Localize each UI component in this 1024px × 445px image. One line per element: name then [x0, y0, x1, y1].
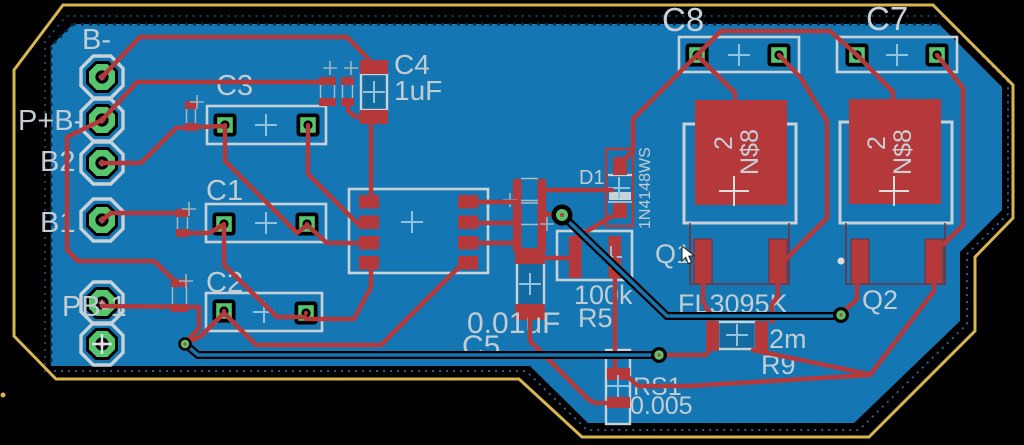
transistor Q2 leg pads — [851, 239, 943, 284]
via near Q2 — [833, 307, 849, 323]
svg-text:C2: C2 — [206, 267, 243, 299]
svg-text:Q2: Q2 — [862, 285, 898, 315]
capacitor C4 body outline — [361, 74, 387, 110]
via near RS1 — [651, 347, 667, 363]
keepout dotted line (outer, on black) — [45, 16, 943, 372]
R9 center cross — [726, 324, 748, 346]
C8 center cross — [728, 44, 750, 66]
svg-text:N$8: N$8 — [889, 129, 917, 175]
svg-text:1N4148WS: 1N4148WS — [637, 147, 654, 229]
wire C3 pad2 to U1 pad2 — [308, 126, 361, 227]
transistor Q1 leg pads — [694, 239, 787, 284]
svg-text:0.005: 0.005 — [630, 392, 693, 420]
wire U1 right pad3 to R8 — [470, 241, 517, 246]
pad PB-1 lower (octagonal through-hole) — [81, 323, 123, 365]
wire D1 cathode to R5 pad1 — [577, 214, 616, 237]
D1 center cross — [608, 177, 630, 199]
resistor R5 outline box — [557, 231, 632, 280]
resistor R9 pads — [706, 321, 768, 351]
wire RS1 top pad to Q2 leg2 — [625, 282, 934, 386]
diode D1 outline box (red) — [606, 149, 633, 226]
wire C8 pad1 to Q1 tab — [697, 55, 735, 102]
wire U1 right pad2 to R7 — [470, 221, 517, 226]
wire R5 pad2 to RS1 top pad — [613, 258, 618, 372]
Q2 tab net label 2 N$8 — [863, 129, 917, 175]
capacitor C3 outline box — [207, 106, 326, 144]
wire R9 pad2 to sense line — [753, 350, 868, 374]
wire D1 anode to C8 pad1 — [620, 55, 697, 164]
svg-text:C8: C8 — [662, 1, 704, 38]
wire C2 pad2 to U1 left pad4 — [306, 267, 371, 319]
resistor RS1 outline box — [606, 350, 630, 424]
Q2 tab cross — [879, 176, 909, 206]
wire P+B down left side to R4 top pad — [67, 120, 177, 283]
transistor Q2 package outline box — [840, 122, 952, 284]
C1 center cross — [255, 212, 277, 234]
capacitor C7 pads — [846, 44, 949, 67]
capacitor C5 body outline — [517, 262, 544, 306]
pad B1 (octagonal through-hole) — [81, 199, 123, 241]
wire B- to C4 top pad — [102, 37, 374, 77]
svg-text:B-: B- — [82, 24, 111, 56]
capacitor C1 outline box — [206, 204, 326, 242]
capacitor C4 pads — [360, 60, 388, 124]
op-amp U1 pads (SO-8) — [359, 195, 478, 270]
capacitor C7 outline box — [837, 37, 957, 72]
resistor R5 pads — [569, 236, 621, 278]
resistor R2 (tiny, left of C3) — [185, 95, 204, 131]
origin dot marker bottom-left — [1, 393, 6, 398]
svg-text:C1: C1 — [206, 175, 243, 207]
wire C7 pad1 to Q2 tab — [857, 55, 893, 101]
wire C8 pad2 to Q1 leg2 — [779, 55, 827, 261]
op-amp U1 outline box (SO-8) — [349, 189, 488, 273]
pad B2 (octagonal through-hole) — [81, 142, 123, 184]
wire C1 pad2 to U1 pad3 — [307, 225, 366, 243]
wire C5 bottom pad to RS1 bottom pad — [530, 314, 612, 403]
wire bottom-layer via to via (left long run) — [185, 344, 659, 355]
wire R3 bottom pad to C1 pad1 — [182, 225, 223, 233]
mouse cursor — [682, 246, 694, 264]
transistor Q2 tab pad — [849, 99, 941, 204]
wire B1 to R3 top pad — [102, 213, 182, 220]
svg-text:D1: D1 — [579, 167, 605, 189]
wire C8 pad1 to C7 pad1 — [697, 31, 857, 55]
capacitor C3 pads — [214, 114, 320, 137]
svg-text:B2: B2 — [40, 146, 75, 178]
capacitor C5 pads — [515, 248, 545, 320]
Q1 tab net label 2 N$8 — [710, 129, 764, 175]
svg-text:2: 2 — [710, 136, 738, 150]
wire Q1 leg2 to R9 pad2 — [772, 282, 778, 322]
via N$12 (near D1) — [552, 205, 573, 226]
C7 center cross — [886, 44, 908, 66]
svg-text:N$8: N$8 — [736, 129, 764, 175]
wire B2 to R2 bottom pad to C3 pad1 — [102, 126, 225, 163]
capacitor C2 outline box — [206, 293, 322, 331]
svg-text:B1: B1 — [40, 207, 75, 239]
Q1 tab cross — [719, 176, 749, 206]
C3 center cross — [255, 114, 277, 136]
RS1 center cross — [607, 375, 629, 397]
capacitor C2 pads — [213, 300, 318, 325]
wire C9 bottom pad to C4 bottom pad — [348, 102, 372, 117]
transistor Q1 package outline box — [684, 124, 796, 284]
transistor Q1 tab pad — [695, 100, 787, 205]
svg-text:2: 2 — [863, 136, 891, 150]
wire bottom-layer via N$12 to via near Q2 — [562, 215, 841, 316]
capacitor C8 outline box — [679, 37, 799, 72]
wire C3 pad1 to C1 pad2 — [225, 126, 306, 233]
U1 center cross — [401, 211, 423, 233]
resistor R7 / R8 pair (stack above C5) — [503, 179, 554, 253]
capacitor C9 (tiny, left of C4) — [341, 61, 358, 106]
svg-text:C7: C7 — [866, 0, 908, 37]
via near PB-1 — [178, 337, 192, 351]
wire via to Q2 leg1 — [841, 282, 857, 314]
pad P+B (octagonal through-hole) — [81, 99, 123, 141]
resistor RS1 pads — [607, 368, 630, 408]
resistor R9 outline box — [718, 322, 756, 349]
svg-text:1uF: 1uF — [394, 75, 442, 106]
wire C2 pad1 to U1 right pad4 — [225, 265, 461, 345]
wire C4 bottom pad to U1 pad1 — [369, 122, 374, 202]
svg-text:R5: R5 — [578, 303, 613, 333]
pad B- (octagonal through-hole) — [81, 56, 123, 98]
wire PB-1 to R4 bottom pad junction — [102, 306, 199, 341]
R5 center cross — [600, 246, 622, 268]
C5 center cross — [519, 273, 541, 295]
wire C5 top to R5 pad1 — [545, 256, 573, 261]
capacitor C6 (tiny, left of C4) — [319, 61, 337, 106]
svg-text:C3: C3 — [216, 70, 253, 102]
wire R7 right to via N$12 — [544, 214, 559, 215]
wire via to R9 pad1 — [661, 347, 712, 355]
resistor R4 (tiny, left of PB-1) — [171, 274, 193, 312]
pad PB-1 upper (octagonal through-hole) — [81, 282, 123, 324]
C4 center cross — [363, 81, 385, 103]
keepout dark dots on blue edge (top/left jag) — [73, 23, 939, 26]
wire C1 pad1 to C2 pad2 — [224, 225, 305, 317]
wire C7 pad2 to Q2 leg2 top — [937, 55, 963, 244]
wire U1 right pad1 to R7 — [470, 200, 517, 205]
wire R7 right to D1 area — [544, 188, 612, 193]
capacitor C8 pads — [686, 44, 791, 67]
diode D1 pads — [613, 157, 627, 218]
white dot marker near Q2 — [838, 258, 845, 265]
wire Q1 leg1 to R9 pad1 — [703, 282, 713, 319]
wire C2 pad1 to junction at via — [191, 313, 224, 341]
capacitor C1 pads — [213, 213, 319, 236]
wire P+B to C6 top pad — [102, 82, 327, 120]
C2 center cross — [253, 301, 275, 323]
resistor R3 (tiny, left of C1) — [176, 202, 196, 237]
